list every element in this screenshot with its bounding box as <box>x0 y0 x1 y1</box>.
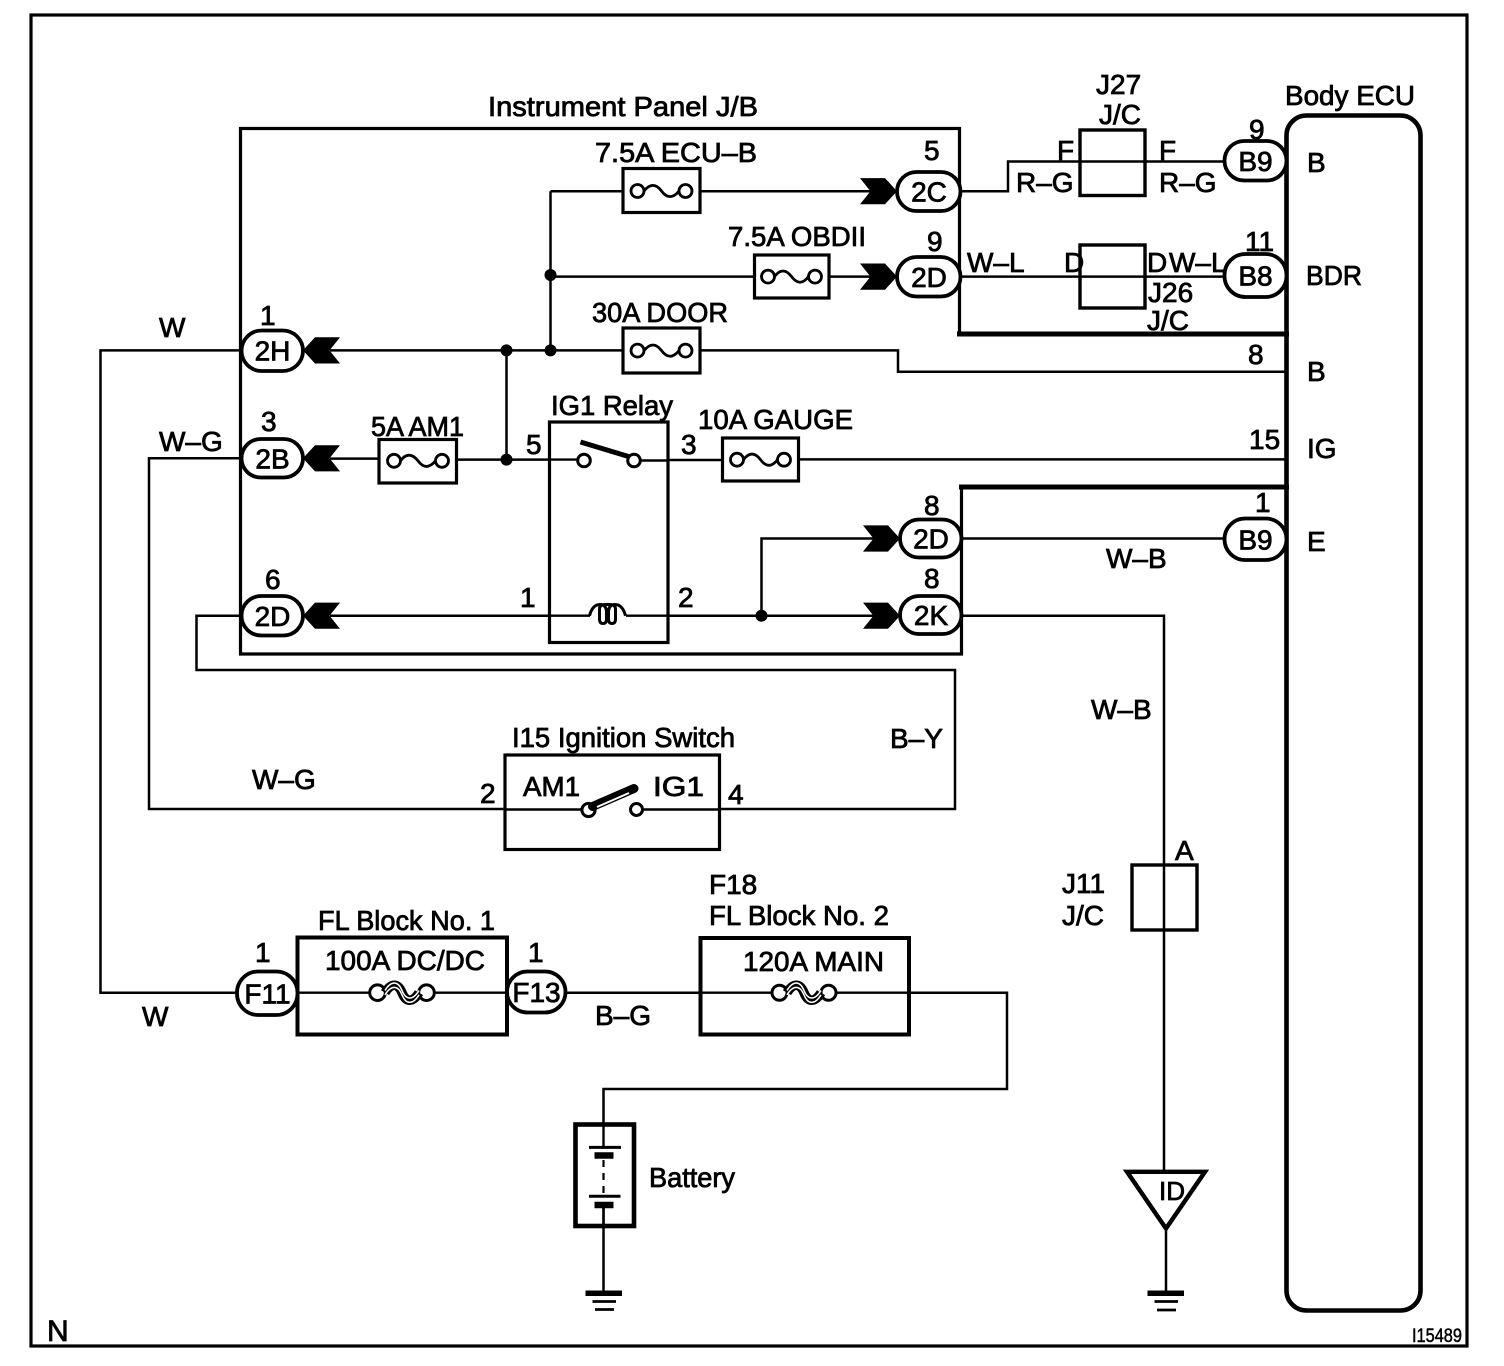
arrow into 2D pin8 <box>863 525 900 551</box>
svg-text:A: A <box>1175 835 1194 866</box>
wire F13 to F18 block <box>566 991 701 994</box>
J27 J/C box <box>1080 130 1145 196</box>
svg-text:ID: ID <box>1159 1176 1185 1206</box>
connector B9 E <box>1225 519 1287 561</box>
svg-text:B–Y: B–Y <box>890 723 943 754</box>
wire 30A DOOR row <box>330 349 623 352</box>
svg-text:I15489: I15489 <box>1412 1325 1462 1347</box>
svg-text:3: 3 <box>681 429 697 460</box>
connector 2D pin6 <box>242 596 304 636</box>
svg-text:J26: J26 <box>1148 277 1193 308</box>
svg-text:1: 1 <box>1255 487 1271 518</box>
svg-text:2: 2 <box>480 778 496 809</box>
wire 2D to B9 E row W-B <box>962 537 1227 540</box>
ignition contact IG1 <box>631 804 643 816</box>
wire relay coil pin2 to 2K <box>668 614 875 617</box>
fuse 7.5A OBDII <box>755 255 830 298</box>
wire 2B to 5A AM1 fuse <box>330 457 379 460</box>
junction <box>756 610 768 622</box>
svg-text:1: 1 <box>528 937 544 968</box>
arrow into 2H <box>303 337 340 363</box>
Instrument Panel J/B box <box>241 129 962 655</box>
junction <box>545 269 557 281</box>
svg-text:120A MAIN: 120A MAIN <box>743 946 884 977</box>
svg-text:D: D <box>1064 247 1084 278</box>
junction <box>545 344 557 356</box>
ignition inner wires <box>505 808 582 810</box>
svg-text:2: 2 <box>678 582 694 613</box>
connector ovals <box>237 141 1287 1015</box>
svg-text:F13: F13 <box>512 977 560 1008</box>
svg-text:BDR: BDR <box>1306 260 1362 291</box>
svg-text:J27: J27 <box>1096 69 1141 100</box>
connector B9 <box>1225 141 1287 181</box>
svg-text:5: 5 <box>924 135 940 166</box>
arrow into 2K <box>863 603 900 629</box>
svg-text:100A DC/DC: 100A DC/DC <box>325 945 485 976</box>
svg-text:7.5A OBDII: 7.5A OBDII <box>728 221 866 252</box>
svg-text:AM1: AM1 <box>523 771 580 802</box>
svg-text:W: W <box>142 1001 169 1032</box>
svg-text:8: 8 <box>924 490 940 521</box>
svg-text:N: N <box>47 1315 69 1348</box>
J/B to ECU joiner lower <box>959 485 1289 490</box>
wire ID to ground <box>1165 1228 1168 1292</box>
svg-text:W–B: W–B <box>1091 694 1152 725</box>
svg-text:B: B <box>1307 356 1326 387</box>
svg-text:IG1: IG1 <box>653 771 704 802</box>
svg-text:W–L: W–L <box>967 247 1025 278</box>
svg-text:4: 4 <box>728 779 744 810</box>
relay contact wires <box>550 458 578 460</box>
svg-text:R–G: R–G <box>1159 167 1217 198</box>
J/B to ECU joiner upper <box>957 332 1289 337</box>
svg-text:15: 15 <box>1249 424 1280 455</box>
ignition contact AM1 <box>582 803 595 816</box>
svg-text:Battery: Battery <box>649 1162 735 1193</box>
wire to 7.5A ECU-B fuse <box>551 190 624 193</box>
svg-text:Body ECU: Body ECU <box>1285 80 1415 111</box>
svg-text:E: E <box>1307 526 1326 557</box>
svg-text:B: B <box>1307 147 1326 178</box>
svg-text:B9: B9 <box>1238 146 1272 177</box>
connector arrows <box>303 178 900 629</box>
fuse 30A DOOR <box>623 328 700 373</box>
arrow into 2B <box>303 445 340 471</box>
fuse 5A AM1 <box>379 440 457 484</box>
svg-text:B9: B9 <box>1238 524 1272 555</box>
wire W-G from 2B down to ignition switch <box>149 458 505 809</box>
svg-text:F: F <box>1057 135 1074 166</box>
fuse 7.5A ECU-B <box>623 169 700 213</box>
svg-text:W–L: W–L <box>1169 247 1227 278</box>
svg-text:B–G: B–G <box>595 1000 651 1031</box>
wire AM1 fuse to relay pin 5 <box>457 458 550 461</box>
svg-text:FL Block No. 1: FL Block No. 1 <box>318 905 495 936</box>
battery <box>576 1125 635 1227</box>
svg-text:W–G: W–G <box>159 426 223 457</box>
svg-text:2K: 2K <box>914 600 949 631</box>
svg-text:FL Block No. 2: FL Block No. 2 <box>709 900 889 931</box>
junction <box>501 454 513 466</box>
wire B-Y loop ignition IG1 to 2D pin 6 <box>197 616 956 809</box>
svg-text:D: D <box>1147 247 1167 278</box>
svg-text:F: F <box>1159 135 1176 166</box>
FL Block No.1 box <box>298 938 508 1035</box>
fusible link 120A MAIN <box>772 985 787 1000</box>
wire 2K to J11 to ID W-B <box>962 616 1165 1171</box>
ignition lever <box>593 789 635 807</box>
connector 2D pin8 <box>900 520 962 558</box>
connector 2B <box>242 439 304 478</box>
svg-text:W–B: W–B <box>1106 543 1167 574</box>
ground ID <box>1148 1293 1185 1310</box>
svg-text:2D: 2D <box>911 262 947 293</box>
connector 2K <box>900 596 962 634</box>
wire 2C to J27 to B9 <box>961 162 1227 192</box>
connector 2D pin9 <box>897 257 961 297</box>
svg-text:2D: 2D <box>913 524 949 555</box>
svg-text:IG1 Relay: IG1 Relay <box>551 390 673 421</box>
fusible link 100A DC/DC <box>370 985 386 1001</box>
svg-text:30A DOOR: 30A DOOR <box>592 297 728 328</box>
connector F11 <box>237 972 298 1016</box>
wire battery negative to ground <box>602 1208 605 1292</box>
ground battery <box>586 1293 623 1309</box>
relay contact right <box>628 454 641 467</box>
connector 2H <box>242 331 304 372</box>
arrow into 2D pin6 <box>303 603 340 629</box>
connector 2C <box>897 172 961 211</box>
wire DOOR fuse to ECU pin 8 B <box>700 350 1288 371</box>
svg-text:2H: 2H <box>255 336 291 367</box>
svg-text:2D: 2D <box>255 601 291 632</box>
wire junction up to 2D pin 8 <box>762 539 876 616</box>
fuse 10A GAUGE <box>723 438 799 481</box>
FL Block No.2 box F18 <box>701 938 910 1035</box>
wire relay pin3 to 10A GAUGE <box>668 459 723 462</box>
svg-text:8: 8 <box>924 563 940 594</box>
arrow into 2C <box>860 178 897 204</box>
svg-text:J11: J11 <box>1062 868 1105 899</box>
wire ECU-B fuse to 2C <box>700 190 872 193</box>
svg-text:9: 9 <box>927 226 943 257</box>
svg-text:10A GAUGE: 10A GAUGE <box>698 404 853 435</box>
wire ECU-B feed vertical <box>549 191 552 350</box>
connector F13 <box>507 972 566 1013</box>
svg-text:R–G: R–G <box>1016 167 1074 198</box>
svg-text:1: 1 <box>260 300 276 331</box>
svg-text:B8: B8 <box>1238 261 1272 292</box>
svg-text:W–G: W–G <box>252 764 316 795</box>
svg-text:5A AM1: 5A AM1 <box>371 411 464 442</box>
svg-text:5: 5 <box>526 429 542 460</box>
junction dots <box>501 269 768 622</box>
wire F18 to battery <box>604 993 1008 1125</box>
junction <box>501 344 513 356</box>
svg-text:Instrument Panel J/B: Instrument Panel J/B <box>488 91 758 122</box>
svg-text:J/C: J/C <box>1062 900 1104 931</box>
svg-text:I15 Ignition Switch: I15 Ignition Switch <box>512 722 735 753</box>
arrow into 2D pin9 <box>860 264 897 290</box>
svg-text:J/C: J/C <box>1147 305 1189 336</box>
svg-text:F18: F18 <box>709 869 757 900</box>
relay IG1 box <box>550 422 669 643</box>
svg-text:W: W <box>159 312 186 343</box>
svg-text:11: 11 <box>1245 226 1274 257</box>
svg-text:3: 3 <box>261 406 277 437</box>
J26 J/C box <box>1080 245 1145 308</box>
J11 J/C box <box>1132 865 1197 930</box>
svg-text:1: 1 <box>255 937 271 968</box>
wire 2D to J26 to B8 <box>961 275 1227 278</box>
svg-text:8: 8 <box>1248 339 1264 370</box>
wire W from 2H to vertical <box>101 350 244 992</box>
wire OBDII row <box>551 275 755 278</box>
ignition switch I15 box <box>505 755 720 850</box>
wire relay coil pin1 to 2D <box>330 614 550 617</box>
relay coil <box>550 605 669 624</box>
svg-text:2B: 2B <box>255 443 289 474</box>
svg-text:J/C: J/C <box>1099 99 1141 130</box>
svg-text:IG: IG <box>1307 433 1337 464</box>
wire GAUGE to ECU pin 15 IG <box>799 458 1289 461</box>
wire tap vertical x506 <box>505 350 508 459</box>
connector B8 <box>1225 254 1287 297</box>
ID ground triangle <box>1127 1172 1205 1229</box>
Body ECU U1 <box>1287 116 1421 1311</box>
svg-text:1: 1 <box>520 582 536 613</box>
relay contact left <box>578 454 591 467</box>
svg-text:7.5A ECU–B: 7.5A ECU–B <box>595 137 757 168</box>
svg-text:9: 9 <box>1249 114 1265 145</box>
relay blade <box>581 442 629 457</box>
svg-text:6: 6 <box>265 564 281 595</box>
wire OBDII fuse to 2D <box>829 275 872 278</box>
svg-text:2C: 2C <box>911 177 947 208</box>
svg-text:F11: F11 <box>244 978 290 1009</box>
